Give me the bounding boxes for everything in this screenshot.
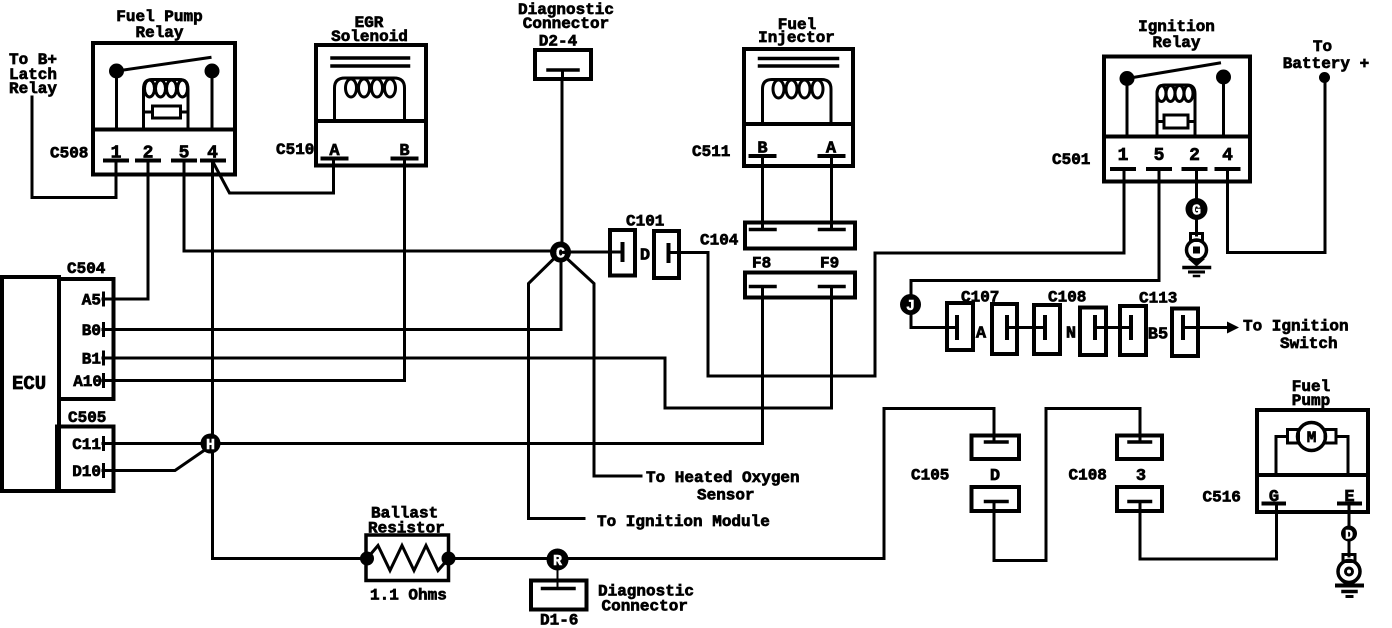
- svg-text:A5: A5: [82, 292, 101, 310]
- wire C105 to connector C108: [994, 409, 1140, 561]
- svg-text:B5: B5: [1148, 326, 1168, 345]
- svg-text:C510: C510: [276, 141, 314, 159]
- wire C108 to C113: [1106, 326, 1129, 329]
- svg-text:5: 5: [1154, 146, 1165, 166]
- wire relay pin 5 to splice C: [184, 161, 562, 252]
- wire relay pin 2 to ECU A5: [103, 161, 148, 300]
- wire ECU C11 to splice H and on to fuel injector F8: [103, 287, 763, 444]
- svg-text:Solenoid: Solenoid: [331, 28, 408, 46]
- node Fuel Pump title: [1292, 378, 1330, 410]
- node To Battery + label: [1283, 38, 1369, 73]
- svg-text:To Ignition: To Ignition: [1243, 318, 1349, 336]
- wire ignition relay pin 4 to battery: [1228, 82, 1326, 253]
- svg-text:D1-6: D1-6: [540, 612, 578, 628]
- connector D1-6: [531, 581, 587, 610]
- svg-text:M: M: [1307, 429, 1317, 447]
- ignition relay: [1104, 57, 1250, 182]
- svg-text:D2-4: D2-4: [539, 33, 578, 51]
- svg-text:C505: C505: [68, 409, 106, 427]
- connector C101: [610, 213, 679, 279]
- splice J: [900, 294, 921, 315]
- node To Ignition Switch label: [1243, 318, 1349, 354]
- svg-text:A10: A10: [73, 373, 102, 391]
- wire EGR pin B to ECU A10: [103, 159, 405, 381]
- fuel pump relay: [93, 43, 235, 175]
- connector C113: [1120, 290, 1198, 357]
- wire splice C to ignition module stub: [529, 260, 585, 519]
- connector C504: [59, 260, 114, 399]
- connector C108 (lower): [1069, 436, 1163, 512]
- svg-text:Pump: Pump: [1292, 392, 1330, 410]
- wire splice J to connector C107: [911, 315, 955, 328]
- svg-text:F8: F8: [752, 255, 771, 273]
- ballast resistor: [362, 535, 455, 581]
- connector C108 inline: [1034, 289, 1106, 356]
- wire ECU B0 to splice C: [103, 252, 561, 330]
- svg-text:C104: C104: [700, 232, 739, 250]
- svg-text:B0: B0: [82, 322, 101, 340]
- svg-text:To Heated Oxygen: To Heated Oxygen: [646, 469, 800, 487]
- EGR solenoid: [316, 45, 426, 166]
- svg-text:2: 2: [1189, 146, 1200, 166]
- wire injector pin B to C104: [761, 156, 764, 230]
- node Ballast Resistor title: [368, 505, 445, 538]
- wire relay pin 4 to EGR solenoid pin A: [214, 159, 334, 194]
- svg-text:1.1 Ohms: 1.1 Ohms: [370, 587, 447, 605]
- svg-text:Injector: Injector: [758, 29, 835, 47]
- connector D2-4: [535, 50, 591, 79]
- svg-text:D10: D10: [72, 463, 101, 481]
- connector F8 F9: [745, 255, 855, 298]
- svg-text:R: R: [553, 553, 562, 570]
- splice G: [1186, 198, 1208, 220]
- wire C113 to ignition switch: [1198, 326, 1228, 329]
- ground at fuel pump: [1337, 555, 1362, 597]
- node Fuel Injector title: [758, 16, 835, 47]
- wire splice D to ground: [1348, 541, 1351, 556]
- wire splice R to connector D1-6: [557, 571, 559, 589]
- wire ignition relay pin 2 to splice G: [1195, 169, 1198, 199]
- svg-text:C511: C511: [692, 143, 730, 161]
- wire C108 to fuel pump pin G: [1140, 504, 1277, 560]
- svg-text:G: G: [1192, 203, 1201, 220]
- svg-text:C105: C105: [911, 467, 949, 485]
- wire ECU D10 to splice H: [103, 451, 204, 471]
- svg-text:C504: C504: [67, 260, 106, 278]
- svg-text:Battery +: Battery +: [1283, 55, 1369, 73]
- connector C104: [700, 223, 855, 250]
- wire splice J to ignition relay pin 5: [911, 169, 1159, 294]
- svg-text:F9: F9: [820, 255, 839, 273]
- svg-text:To Ignition Module: To Ignition Module: [597, 513, 770, 531]
- node To Heated Oxygen Sensor label: [646, 469, 800, 505]
- wire splice C to heated oxygen sensor stub: [568, 260, 641, 477]
- svg-text:C11: C11: [72, 436, 101, 454]
- svg-text:C516: C516: [1203, 489, 1241, 507]
- wire fuel pump pin E to splice D: [1348, 504, 1351, 528]
- splice R: [547, 549, 569, 571]
- connector C107: [947, 289, 1017, 355]
- wire splice C to connector C101: [571, 251, 621, 254]
- wire D2-4 to splice C: [561, 79, 564, 243]
- svg-text:C: C: [556, 246, 565, 263]
- node To B+ Latch Relay label: [9, 51, 57, 98]
- wire C101 to ignition relay pin 1: [679, 169, 1124, 376]
- svg-text:C108: C108: [1069, 467, 1107, 485]
- ECU: [2, 277, 59, 491]
- svg-text:3: 3: [1136, 467, 1146, 486]
- svg-text:H: H: [206, 437, 215, 454]
- wire ballast resistor to connector C105: [449, 409, 995, 559]
- splice D: [1341, 526, 1357, 543]
- ground at splice G: [1184, 234, 1210, 277]
- svg-text:Relay: Relay: [135, 24, 183, 42]
- svg-text:Sensor: Sensor: [697, 487, 755, 505]
- wire splice G to ground: [1195, 220, 1198, 235]
- fuel pump: [1257, 410, 1368, 512]
- wire relay pin 4 down to ballast resistor line: [211, 161, 214, 559]
- svg-text:Connector: Connector: [602, 598, 688, 616]
- svg-text:B1: B1: [82, 351, 101, 369]
- node Ignition Relay title: [1138, 18, 1215, 52]
- connector C105: [911, 436, 1019, 512]
- node EGR Solenoid title: [331, 14, 408, 46]
- splice C: [550, 242, 571, 263]
- svg-text:ECU: ECU: [12, 373, 46, 395]
- svg-text:J: J: [906, 298, 915, 315]
- svg-text:1: 1: [1118, 146, 1129, 166]
- wire ECU B1 to fuel injector F9: [103, 287, 832, 408]
- svg-text:N: N: [1066, 325, 1076, 344]
- svg-text:Switch: Switch: [1280, 335, 1338, 353]
- wire ballast line from relay pin 4: [213, 557, 367, 560]
- node Diagnostic Connector label (bottom): [598, 583, 694, 616]
- svg-text:Connector: Connector: [523, 15, 609, 33]
- svg-text:C508: C508: [50, 145, 88, 163]
- svg-text:D: D: [990, 467, 1000, 486]
- connector C505: [57, 409, 114, 491]
- svg-text:A: A: [976, 325, 987, 344]
- wire injector pin A to C104: [830, 156, 833, 230]
- svg-text:To: To: [1313, 38, 1332, 56]
- svg-text:Relay: Relay: [9, 80, 57, 98]
- wire C508 pin 1 to B+ latch relay: [32, 97, 116, 198]
- splice H: [201, 434, 221, 455]
- node Diagnostic Connector D2-4 label: [518, 1, 614, 51]
- wire C107 to C108: [1017, 326, 1043, 329]
- node battery terminal dot: [1319, 72, 1330, 83]
- svg-text:4: 4: [1222, 146, 1233, 166]
- fuel injector: [744, 49, 853, 166]
- svg-text:Relay: Relay: [1152, 34, 1200, 52]
- node Fuel Pump Relay title: [116, 8, 202, 42]
- svg-text:C501: C501: [1052, 151, 1090, 169]
- svg-text:C101: C101: [626, 213, 664, 231]
- svg-text:D: D: [640, 247, 650, 266]
